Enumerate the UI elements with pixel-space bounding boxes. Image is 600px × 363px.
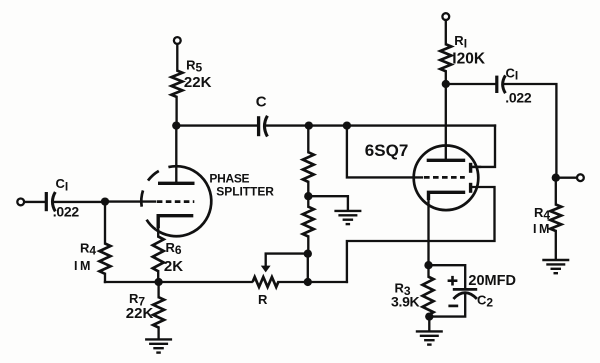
svg-text:2K: 2K bbox=[164, 258, 183, 275]
resistor R4 (right, 1M) bbox=[550, 205, 561, 232]
svg-text:C: C bbox=[256, 93, 267, 110]
tube V2 envelope 6SQ7 bbox=[414, 146, 479, 211]
resistor divider upper bbox=[303, 152, 314, 182]
svg-text:.022: .022 bbox=[53, 204, 80, 220]
capacitor C1 (input coupling) bbox=[46, 192, 55, 211]
resistor R1 (120K) bbox=[440, 44, 451, 71]
tube V1 envelope (phase splitter, dashed left arc) bbox=[141, 166, 211, 236]
wire: divider lower lead bbox=[307, 196, 309, 207]
wire: link to bottom bus bbox=[307, 254, 309, 282]
potentiometer R body bbox=[253, 277, 279, 287]
ground (below R3) bbox=[416, 330, 443, 332]
V1 grid (dashed) bbox=[157, 200, 195, 203]
wire: grid bus down and right to 6SQ7 grid bbox=[347, 126, 422, 178]
capacitor C2 (20MFD electrolytic) bbox=[453, 289, 477, 299]
terminal: output right bbox=[577, 174, 584, 181]
V2 grid (dashed) bbox=[424, 176, 465, 179]
resistor R4 (left, 1M) bbox=[100, 244, 111, 274]
wire: plate to C1 right bbox=[446, 83, 496, 85]
svg-text:RI: RI bbox=[454, 33, 467, 50]
node: V2 plate junction bbox=[442, 80, 450, 88]
node: output junction bbox=[552, 174, 560, 182]
node: V1 grid junction bbox=[101, 197, 109, 205]
capacitor C1 (output coupling) bbox=[497, 75, 506, 93]
svg-text:R4: R4 bbox=[80, 241, 96, 258]
svg-text:I M: I M bbox=[74, 259, 90, 273]
wire: R1 top lead bbox=[445, 20, 447, 44]
wire: C1 to output node bbox=[504, 84, 557, 178]
wire: R5 top lead bbox=[176, 44, 178, 71]
svg-text:R6: R6 bbox=[166, 240, 182, 257]
svg-text:PHASE: PHASE bbox=[209, 171, 249, 185]
svg-text:22K: 22K bbox=[184, 74, 212, 91]
wire: R4 top lead bbox=[104, 202, 106, 244]
wire: R3 bottom lead bbox=[427, 315, 429, 317]
wire: R7 ground lead bbox=[157, 328, 159, 339]
wire: bottom bus y=282 bbox=[105, 281, 252, 283]
svg-text:C2: C2 bbox=[477, 292, 493, 309]
node: divider top bbox=[305, 121, 313, 129]
V2 cathode bar with left hook bbox=[429, 192, 466, 200]
svg-text:20MFD: 20MFD bbox=[468, 273, 516, 289]
V1 plate bar bbox=[158, 182, 195, 185]
V2 plate bar bbox=[427, 159, 466, 162]
wire: top bus right corner to upper diode plate bbox=[473, 126, 496, 167]
resistor R6 (2K) bbox=[153, 237, 164, 272]
node: 6SQ7 grid bus tap bbox=[343, 121, 351, 129]
svg-text:I M: I M bbox=[533, 222, 549, 236]
wire: divider upper lead bbox=[307, 126, 309, 153]
wire: plate bus to capacitor C bbox=[176, 124, 257, 126]
wire: C2 bottom branch bbox=[429, 295, 465, 317]
node: bottom bus junction bbox=[304, 278, 312, 286]
V1 plate lead wire bbox=[175, 126, 177, 182]
capacitor C (coupling) bbox=[259, 116, 268, 137]
svg-text:.022: .022 bbox=[505, 90, 532, 106]
wire: wiper to divider bbox=[266, 252, 308, 254]
svg-text:CI: CI bbox=[56, 176, 69, 193]
svg-text:R5: R5 bbox=[186, 58, 202, 75]
label - polarity bbox=[448, 305, 458, 308]
wire: R5 bottom lead bbox=[175, 97, 177, 126]
V1 cathode bar with left hook bbox=[158, 216, 193, 228]
terminal: input jack left bbox=[17, 199, 24, 206]
terminal: B+ top right bbox=[442, 13, 449, 20]
wire: V1 cathode lead bbox=[157, 226, 159, 237]
wire: C1 to grid node bbox=[53, 201, 105, 203]
wire: R6 bottom lead bbox=[157, 271, 159, 282]
V2 diode plate lower bbox=[469, 183, 472, 193]
node: R6/R7 junction bbox=[154, 278, 162, 286]
wire: grid lead V1 bbox=[105, 200, 155, 202]
wire: V2 cathode lead down bbox=[427, 199, 429, 265]
wire: R4 right top lead bbox=[555, 178, 557, 205]
wire: to ground bbox=[428, 317, 430, 331]
node: ground junction bbox=[425, 312, 433, 320]
svg-text:6SQ7: 6SQ7 bbox=[365, 141, 408, 160]
node: cathode junction bbox=[424, 261, 432, 269]
V2 diode plate upper bbox=[469, 163, 472, 173]
resistor divider lower bbox=[303, 207, 314, 237]
resistor R3 (3.9K) bbox=[423, 277, 434, 316]
svg-text:R: R bbox=[258, 292, 268, 307]
wire: mid ground stub bbox=[308, 196, 348, 210]
label + polarity bbox=[448, 276, 458, 286]
wire bbox=[307, 182, 309, 196]
resistor R7 (22K) bbox=[153, 297, 164, 327]
svg-text:SPLITTER: SPLITTER bbox=[216, 185, 274, 199]
wire: to wiper node bbox=[307, 237, 309, 254]
pot wiper arrow bbox=[261, 254, 271, 273]
wire: C to grid bus bbox=[265, 124, 495, 126]
svg-text:I20K: I20K bbox=[452, 50, 486, 67]
node: V1 plate junction bbox=[172, 121, 180, 129]
wire: input to C1 bbox=[24, 201, 45, 203]
ground (divider mid) bbox=[334, 210, 361, 212]
wire: R1 bottom lead bbox=[445, 71, 447, 84]
svg-text:3.9K: 3.9K bbox=[391, 294, 420, 310]
wire: R4 right bottom lead bbox=[555, 231, 557, 259]
svg-text:22K: 22K bbox=[126, 305, 154, 322]
wire: C2 top branch bbox=[429, 265, 466, 288]
ground (below R7) bbox=[145, 338, 172, 340]
wire: lower diode lead to bottom loop bbox=[347, 187, 495, 282]
svg-text:R4: R4 bbox=[534, 205, 550, 222]
node: wiper junction bbox=[304, 250, 312, 258]
wire: R3 top lead bbox=[427, 265, 429, 276]
wire: R7 top lead bbox=[157, 282, 159, 297]
wire: R4 bottom lead bbox=[104, 274, 106, 282]
wire: to output terminal bbox=[556, 177, 577, 179]
terminal: B+ top left bbox=[174, 37, 181, 44]
svg-text:CI: CI bbox=[506, 65, 519, 82]
node: divider mid (ground tap) bbox=[304, 192, 312, 200]
resistor R5 (22K) bbox=[171, 71, 182, 98]
wire: upper diode lead bbox=[472, 166, 480, 168]
ground (below right R4) bbox=[542, 259, 569, 261]
V2 plate lead wire bbox=[445, 84, 447, 159]
